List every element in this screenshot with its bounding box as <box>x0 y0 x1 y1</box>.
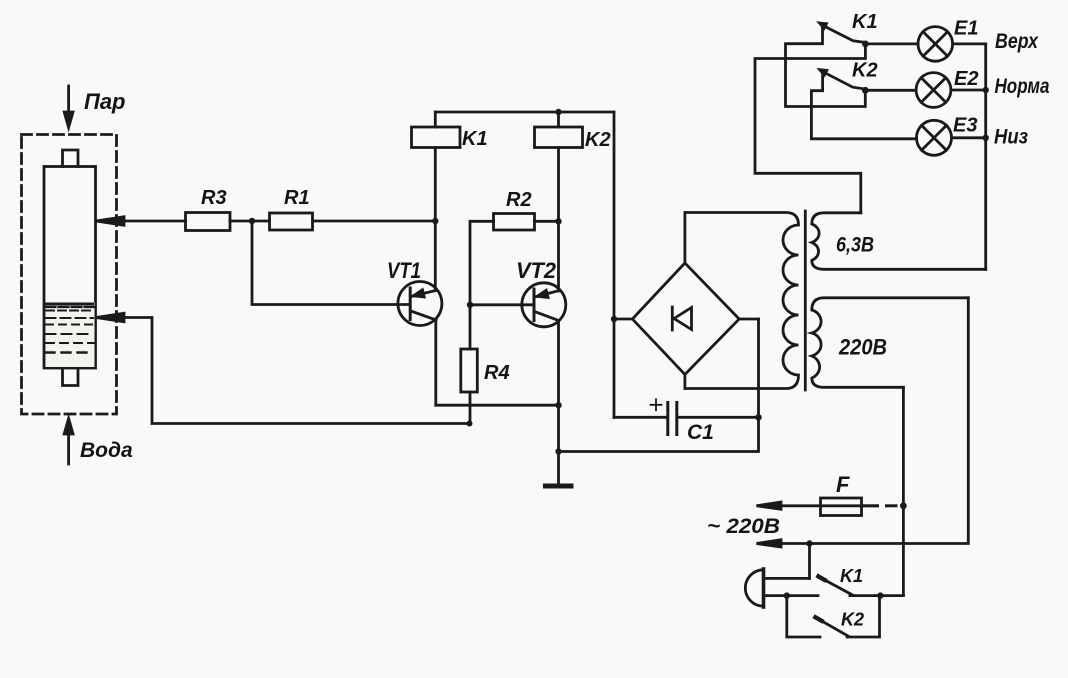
node: K1/K2 alarm junction <box>877 592 883 598</box>
node: emitter rail / ground stem <box>555 402 561 408</box>
lamp E3 <box>917 120 986 155</box>
supply arrow lower <box>757 540 782 547</box>
sensor enclosure (dashed) <box>22 135 117 415</box>
water level hatching <box>46 303 95 368</box>
transformer core <box>804 211 807 390</box>
svg-text:E3: E3 <box>953 115 977 137</box>
wire: lamp common to 6.3V bottom <box>984 44 987 269</box>
resistor R3 <box>186 213 231 231</box>
steam inlet arrow (Пар) <box>64 86 73 128</box>
node: R1/K1 junction <box>432 218 438 224</box>
svg-text:Низ: Низ <box>994 126 1028 149</box>
relay coil K2 <box>535 112 583 148</box>
transformer 6.3V winding <box>812 213 986 269</box>
node: K1 contact output <box>862 41 869 48</box>
relay coil K1 <box>412 112 461 148</box>
wire: K1 coil to VT1 collector <box>434 148 437 291</box>
wire: ground stem <box>557 405 560 483</box>
wire: R2 left lead down to VT2 base <box>470 221 494 304</box>
contact K1 <box>820 23 866 43</box>
svg-text:VT2: VT2 <box>516 258 557 283</box>
svg-text:F: F <box>836 472 850 497</box>
fuse F <box>759 498 897 516</box>
wire: rail down to bridge plus <box>613 112 616 417</box>
wire: bridge plus lead <box>614 318 632 321</box>
node: plus rail junction <box>611 316 617 322</box>
contact K1 (alarm) <box>818 576 903 595</box>
LABELS <box>80 89 133 462</box>
wire: VT2 base lead <box>470 303 534 306</box>
svg-text:K1: K1 <box>840 566 863 586</box>
svg-text:K2: K2 <box>841 610 864 630</box>
wire: 220V bottom lead down to contacts <box>902 387 905 595</box>
svg-text:K2: K2 <box>852 60 878 82</box>
contact K2 <box>820 70 866 89</box>
resistor R2 <box>494 214 535 231</box>
svg-text:R1: R1 <box>284 187 310 209</box>
wire: +V top rail <box>435 111 614 114</box>
lamp E1 <box>865 27 985 62</box>
svg-text:6,3В: 6,3В <box>836 234 874 257</box>
wire: R3 to R1 <box>230 220 270 223</box>
resistor R1 <box>270 213 313 230</box>
svg-text:R4: R4 <box>484 362 510 384</box>
node: supply to bell <box>806 540 812 546</box>
svg-text:~ 220В: ~ 220В <box>707 515 780 538</box>
svg-text:Пар: Пар <box>84 89 126 114</box>
node on top rail <box>555 109 561 115</box>
svg-text:K2: K2 <box>585 129 611 151</box>
svg-text:K1: K1 <box>852 11 878 33</box>
svg-text:С1: С1 <box>687 421 714 444</box>
wire: R2 right lead <box>535 220 559 223</box>
node: R3/R1 junction <box>249 218 255 224</box>
wire: K1 pivot to K2 fixed <box>786 27 866 107</box>
node: E3 to common <box>983 135 989 141</box>
wire: R1 to K1 branch <box>313 220 436 223</box>
node: fuse to 220V winding line <box>900 502 907 509</box>
transistor VT2 <box>522 283 566 327</box>
wire: lower probe down and right to R4 bottom (with arrow into vessel) <box>96 313 470 423</box>
water inlet arrow (Вода) <box>64 419 73 465</box>
svg-text:K1: K1 <box>462 128 488 150</box>
wire: VT2 emitter down <box>557 321 560 406</box>
wire: ground rail to bridge minus <box>559 319 759 452</box>
transistor VT1 <box>398 282 442 326</box>
wire: VT1 emitter down <box>434 320 437 405</box>
svg-text:R3: R3 <box>201 187 227 209</box>
svg-text:R2: R2 <box>506 189 532 211</box>
svg-text:VT1: VT1 <box>387 258 421 283</box>
capacitor C1 <box>614 399 759 434</box>
svg-text:E1: E1 <box>954 18 978 40</box>
supply arrow upper <box>757 502 782 509</box>
wire: bridge AC top to transformer <box>684 213 687 264</box>
wire: 6.3V top lead to contacts feed <box>755 44 865 213</box>
node: R2/K2 junction <box>555 218 561 224</box>
svg-text:220В: 220В <box>838 335 887 360</box>
wire: bridge AC bottom to transformer <box>684 375 687 389</box>
bell HA1 <box>745 544 818 608</box>
wire: emitter rail <box>436 404 559 407</box>
node: E2 to common <box>983 87 989 93</box>
wire: 220V top lead down to supply <box>759 298 969 544</box>
wire: upper probe to R3 (with arrow into vessel) <box>96 217 185 225</box>
node: ground tee <box>555 448 561 454</box>
bridge rectifier <box>632 263 739 375</box>
svg-text:Вода: Вода <box>80 439 133 462</box>
contact K2 (alarm) <box>787 596 880 637</box>
node: sensor line to R4 bottom <box>467 421 473 427</box>
svg-text:Норма: Норма <box>995 75 1050 98</box>
wire: VT1 base branch <box>252 221 410 305</box>
transformer T1 primary-side winding <box>685 213 799 389</box>
svg-text:Верх: Верх <box>995 30 1039 53</box>
node: K2 contact output <box>862 87 869 94</box>
node: C1 to minus line <box>755 414 761 420</box>
sensor vessel <box>44 150 96 386</box>
svg-text:E2: E2 <box>954 68 978 90</box>
wire: K2 pivot to E3 <box>811 74 916 139</box>
lamp E2 <box>865 73 985 108</box>
transformer 220V winding <box>812 298 969 388</box>
wire: K2 coil to VT2 collector <box>557 148 560 292</box>
ground <box>546 484 572 489</box>
node: VT2 base junction <box>467 302 473 308</box>
node: bell to K2 branch <box>784 592 790 598</box>
resistor R4 <box>461 305 478 424</box>
wire: bridge minus lead <box>739 318 758 321</box>
